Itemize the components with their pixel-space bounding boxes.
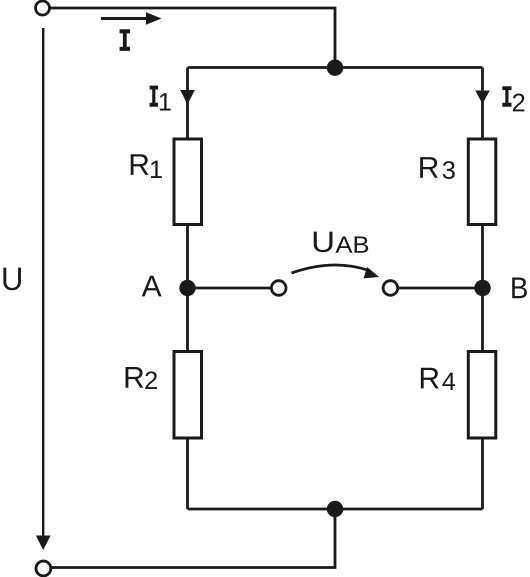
node A (junction dot)	[179, 280, 195, 296]
arrow: source voltage U direction (down)	[36, 536, 51, 551]
wire: node A to left measuring terminal	[188, 287, 271, 290]
label I2	[502, 86, 511, 107]
wire: node B to R4	[481, 288, 484, 352]
resistor R1	[174, 139, 202, 225]
label R3	[420, 157, 438, 178]
wire: bottom return to source minus terminal	[52, 509, 335, 568]
terminal: top source terminal (open circle)	[36, 1, 50, 15]
label I (total current)	[120, 29, 130, 51]
wire: left branch segment (R1 to node A)	[186, 225, 189, 289]
wire: bridge top rail	[188, 66, 483, 69]
wire: right measuring terminal to node B	[399, 287, 483, 290]
node: top junction dot	[327, 59, 343, 75]
terminal: right measuring point of U_AB (open circle)	[383, 281, 398, 296]
wire: right branch upper segment (top rail to R3)	[481, 68, 484, 140]
label I1	[150, 86, 158, 107]
terminal: bottom source terminal (open circle)	[36, 561, 51, 576]
wire: left source rail (vertical)	[42, 28, 44, 537]
node: bottom junction dot	[327, 501, 343, 517]
wire: R4 to bottom rail	[481, 438, 484, 509]
label R1	[131, 154, 149, 175]
label R2	[126, 367, 144, 388]
arrow: total current I (pointing right)	[101, 17, 149, 20]
arrow: branch current I2 (down)	[475, 91, 490, 105]
resistor R2	[174, 352, 202, 439]
resistor R3	[468, 139, 496, 225]
label U_AB	[314, 232, 333, 253]
wire: bridge bottom rail	[188, 508, 483, 511]
wire: top feed from source plus terminal to bridge top node	[51, 8, 336, 63]
arrow: U_AB direction (curved from A side to B side)	[292, 265, 369, 273]
terminal: left measuring point of U_AB (open circle)	[271, 281, 286, 296]
resistor R4	[468, 352, 496, 439]
label B	[512, 278, 527, 299]
wire: right branch segment (R3 to node B)	[481, 225, 484, 289]
arrow: branch current I1 (down)	[180, 90, 195, 105]
wire: left branch upper segment (top rail to R1)	[186, 68, 189, 140]
label A	[142, 276, 162, 297]
wire: node A to R2	[186, 288, 189, 352]
node B (junction dot)	[474, 280, 490, 296]
wire: R2 to bottom rail	[186, 438, 189, 509]
label U (source voltage)	[3, 268, 21, 291]
label R4	[421, 368, 439, 389]
